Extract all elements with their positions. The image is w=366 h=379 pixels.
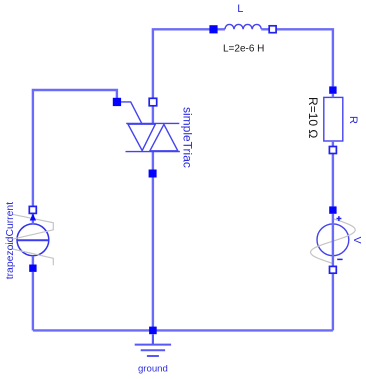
ground symbol (135, 334, 171, 356)
wire triac bottom to ground junction (152, 152, 154, 331)
triac bottom line (126, 151, 180, 153)
value R=10 ohm (306, 97, 320, 138)
trapezoid waveform (gray) (12, 214, 53, 265)
label V (351, 237, 363, 244)
svg-text:R=10 Ω: R=10 Ω (306, 97, 320, 138)
label R (347, 116, 359, 124)
label trapezoidCurrent (5, 202, 16, 280)
V plus sign (337, 216, 342, 221)
trapezoidCurrent diameter line (17, 239, 49, 241)
pin triac bottom (filled square) (149, 170, 157, 178)
resistor R body (324, 97, 343, 141)
wire L.n to R.p (top right corner) (277, 29, 333, 86)
svg-text:L=2e-6 H: L=2e-6 H (223, 43, 264, 54)
wire V.n down to bottom net (332, 274, 334, 331)
wire trapezoidCurrent.n down to bottom net (32, 272, 34, 331)
value L=2e-6 H (223, 43, 264, 54)
pin R.p (filled square) (329, 86, 336, 97)
trapezoidCurrent axis stubs (32, 214, 34, 265)
pin triac top (open square) (149, 98, 157, 106)
wire bottom net (33, 329, 333, 331)
ground junction (filled square) (149, 327, 157, 335)
label ground (138, 364, 168, 375)
pin V.n (open square) (330, 266, 337, 273)
svg-text:simpleTriac: simpleTriac (181, 107, 195, 168)
pin V.p (filled square) (329, 206, 336, 213)
pin trapezoidCurrent.p (open square) (29, 206, 36, 213)
voltage source V circle (317, 224, 349, 256)
inductor L (218, 24, 269, 29)
triac triangle up (150, 124, 178, 150)
current source trapezoidCurrent circle (17, 224, 49, 256)
wire R.n to V.p (332, 154, 334, 207)
V minus sign (337, 258, 342, 260)
V axis line through circle (332, 214, 334, 266)
label L (237, 3, 243, 15)
wire gate node to triac gate (121, 102, 142, 123)
svg-text:ground: ground (138, 364, 168, 375)
svg-text:trapezoidCurrent: trapezoidCurrent (5, 202, 16, 280)
wire triac top pin to L.p (153, 29, 210, 123)
pin R.n (open square) (329, 141, 336, 154)
svg-text:L: L (237, 3, 243, 15)
trapezoidCurrent arrow (30, 214, 36, 221)
wire trapezoidCurrent.p up to gate node (33, 90, 117, 206)
pin triac gate (filled square) (113, 98, 121, 106)
label simpleTriac (181, 107, 195, 168)
V sine wave (gray) (311, 219, 356, 264)
pin trapezoidCurrent.n (filled square) (29, 265, 36, 272)
pin L.p (filled square) (209, 25, 217, 33)
pin L.n (open square) (269, 26, 276, 33)
triac simpleTriac top line (126, 122, 179, 124)
svg-text:R: R (347, 116, 359, 124)
triac triangle down (128, 124, 155, 150)
svg-text:V: V (351, 237, 363, 244)
